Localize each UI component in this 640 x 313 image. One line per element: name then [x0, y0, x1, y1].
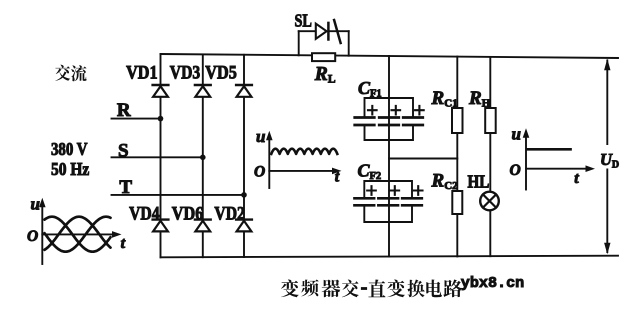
- diode VD5: [236, 85, 252, 97]
- diode VD1: [153, 85, 169, 97]
- wire phase-S leg vertical: [202, 54, 204, 257]
- svg-text:S: S: [118, 140, 129, 161]
- wire bottom DC bus: [161, 256, 619, 258]
- wire RH-HL branch vertical: [489, 57, 491, 256]
- wire capacitor branch vertical: [388, 56, 390, 257]
- svg-text:ybx8.cn: ybx8.cn: [461, 275, 524, 292]
- label 交流 (AC): [55, 65, 86, 82]
- svg-text:O: O: [27, 228, 38, 245]
- svg-text:t: t: [335, 168, 340, 185]
- svg-text:u: u: [512, 124, 521, 143]
- wire top DC bus: [161, 54, 619, 58]
- svg-text:u: u: [256, 127, 265, 146]
- svg-text:380 V: 380 V: [51, 139, 88, 159]
- node T junction: [241, 192, 247, 198]
- svg-text:O: O: [510, 162, 521, 179]
- resistor RC1: [452, 108, 463, 133]
- wire SL bypass top: [299, 30, 349, 32]
- svg-text:u: u: [31, 194, 40, 213]
- svg-text:VD3: VD3: [170, 62, 200, 83]
- capacitor CF1 bank: [355, 98, 424, 140]
- wire SL bypass left vertical: [298, 31, 300, 55]
- wire SL bypass right vertical: [348, 31, 350, 56]
- svg-text:VD1: VD1: [126, 62, 158, 83]
- svg-text:t: t: [121, 235, 126, 252]
- svg-text:VD5: VD5: [205, 62, 237, 83]
- waveform three-phase input: [39, 198, 122, 264]
- wire phase T input: [112, 194, 245, 196]
- resistor RC2: [452, 191, 462, 214]
- node S junction: [200, 155, 206, 161]
- svg-text:50 Hz: 50 Hz: [51, 159, 89, 179]
- diode VD3: [195, 85, 211, 97]
- capacitor CF2 bank: [355, 181, 423, 222]
- svg-text:T: T: [119, 177, 132, 198]
- wire phase R input: [112, 118, 161, 120]
- svg-text:VD6: VD6: [172, 203, 204, 224]
- wire RC branch vertical: [456, 57, 458, 257]
- node R junction: [158, 116, 164, 122]
- contactor SL (bypass switch): [316, 20, 341, 43]
- waveform DC output: [523, 128, 595, 189]
- svg-text:HL: HL: [468, 171, 490, 191]
- svg-text:VD2: VD2: [214, 203, 245, 224]
- lamp HL: [480, 192, 499, 211]
- svg-text:O: O: [254, 164, 265, 181]
- resistor RH: [485, 108, 496, 133]
- diode VD2: [236, 220, 252, 232]
- svg-text:R: R: [117, 100, 131, 121]
- wire phase-R leg vertical: [160, 54, 162, 257]
- wire phase-T leg vertical: [243, 55, 245, 257]
- caption 变频器交-直变换电路: [281, 279, 462, 297]
- node UD dimension line with arrows: [604, 59, 610, 254]
- resistor RL (charging resistor): [312, 53, 335, 61]
- wire capacitor midpoint tap: [389, 158, 457, 160]
- svg-text:SL: SL: [295, 10, 312, 30]
- diode VD4: [153, 220, 169, 232]
- svg-text:t: t: [574, 170, 579, 187]
- diode VD6: [195, 220, 211, 232]
- wire phase S input: [112, 156, 203, 158]
- svg-text:VD4: VD4: [129, 203, 160, 224]
- waveform rectified ripple: [266, 131, 342, 188]
